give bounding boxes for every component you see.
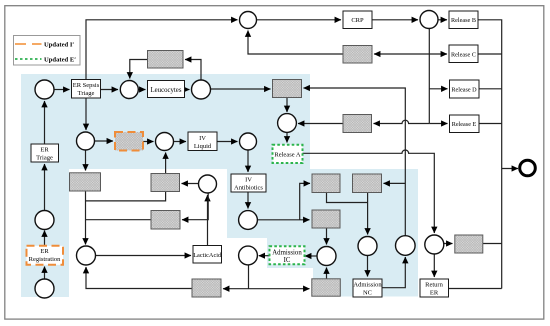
svg-text:Leucocytes: Leucocytes [151,87,182,94]
wire place p9 to CRP [257,19,342,21]
place p5 [192,80,211,99]
transition Leucocytes [148,81,185,98]
wire place p4 to Leucocytes [138,89,145,91]
gray transition G [353,174,382,193]
wire orange rect O1 to place p7 [143,141,154,143]
svg-text:Updated I′: Updated I′ [44,41,74,48]
legend green dotted sample [15,58,42,60]
wire place p11 to Release A [286,132,288,143]
transition LacticAcid [193,246,222,264]
svg-text:Release B: Release B [451,17,476,24]
place p18 [396,236,416,256]
wire trunk from place p10 down [428,29,430,124]
transition Admission IC green dashed [270,246,305,264]
gray transition B [343,115,372,133]
wire branch up to gray rect F [300,183,310,219]
place p16 [317,247,336,266]
wire place p7 to IV Liquid [174,141,187,143]
svg-text:Release E: Release E [452,121,477,128]
wire gray rect F elbow down [327,193,368,203]
wire place p14 to gray rect H [258,219,310,221]
gray transition F [312,174,340,193]
legend box [14,36,81,66]
wire place p6 down to gray rect C [85,150,87,171]
wire gray rect B to place p11 [298,123,343,125]
wire trunk rect C down to place p12 [85,191,87,245]
transition Release A green dashed [273,145,303,163]
gray transition A [273,80,302,98]
svg-text:Triage: Triage [36,155,53,162]
place p14 [239,211,258,230]
gray transition E [151,211,180,230]
svg-text:Liquid: Liquid [194,143,212,150]
wire place p2 to ER Triage [44,164,46,210]
wire place p12 to LacticAcid [96,255,192,257]
svg-text:CRP: CRP [351,17,364,24]
place p13 [199,175,217,193]
wire LacticAcid up to place p13 [207,195,209,246]
place p8 [240,133,257,150]
wire Admission IC to place p15 [259,255,270,257]
svg-text:Release C: Release C [451,52,476,59]
wire place p18 branch to gray rect G [384,182,406,184]
wire Release A to place p19 with hop [302,150,435,233]
place p11 [278,114,297,133]
transition Release C [449,45,478,63]
svg-text:NC: NC [363,290,372,297]
shaded region upper-left [21,74,310,297]
wire gray rect J to place p12 [86,267,192,289]
transition IV Liquid [188,132,217,151]
place p6 [77,132,95,150]
place p19 [425,235,444,254]
svg-text:ER: ER [430,290,439,297]
wire start place to ER Registration [44,267,46,279]
wire place p13 trunk down to gray rect E [182,193,208,220]
wire place p18 up to gray rect A [304,88,406,236]
wire CRP to place p10 [372,19,418,21]
transition Admission NC [353,279,382,297]
gray transition C [70,173,101,191]
svg-text:Antibiotics: Antibiotics [234,185,263,192]
wire Release D to right trunk [479,88,502,90]
place p17 [358,237,377,256]
svg-text:Return: Return [425,282,443,289]
wire gray rect D up to place p7 [165,153,167,174]
wire ER Sepsis Triage down to place p6 [85,98,87,130]
place p3 [35,80,54,99]
wire IV Liquid to place p8 [217,141,238,143]
wire place p19 to gray rect I [444,243,453,245]
wire place p16 to Admission IC [305,255,317,257]
transition Release D [450,80,480,98]
wire ER Registration to place p2 [44,231,46,246]
gray transition H [312,210,340,228]
wire skip-rect L to place p9 [248,31,343,55]
wire right trunk to end place [502,168,518,170]
wire place p5 to gray rect A [211,88,271,90]
transition IV Antibiotics [231,174,266,192]
svg-text:Release A: Release A [274,152,300,159]
wire gray rect I to right trunk [483,243,502,245]
svg-text:IC: IC [284,257,291,264]
wire place p19 down to Return ER [433,254,435,277]
wire Leucocytes to place p5 [185,89,190,91]
shaded region lower-right [227,169,418,297]
place end [520,160,536,176]
transition Release E [450,115,480,133]
place p7 [156,133,174,151]
wire place p6 to orange rect O1 [95,140,114,142]
gray transition I [455,235,483,253]
wire skip-rect M to place p4 [130,60,148,79]
transition Return ER [420,279,449,297]
wire place p10 to Release B [438,19,447,21]
place p12 [77,246,96,265]
svg-text:Admission: Admission [272,249,302,256]
svg-text:Release D: Release D [451,87,477,94]
wire trunk to Release C [429,53,447,55]
wire IV Antibiotics down to place p14 [247,192,249,209]
wire ER Triage to place p3 [44,101,46,144]
svg-text:ER Sepsis: ER Sepsis [73,82,100,89]
wire place p15 down branch [248,265,250,289]
svg-text:IV: IV [245,177,252,184]
gray transition J [192,279,221,297]
wire place p5 up into skip-rect M [185,60,201,81]
wire gray rect G down to place p17 [367,193,369,235]
transition ER Registration orange dashed [27,246,64,265]
wire branch to gray rect K [249,288,310,290]
svg-text:Admission: Admission [353,282,382,289]
wire trunk to Release E [429,123,447,125]
place p4 [120,81,138,99]
wire trunk to skip-rect L [374,53,429,55]
gray transition K [312,279,341,296]
transition CRP [343,11,372,29]
place p9 [240,12,257,29]
wire gray rect D bottom elbow to trunk [86,192,166,201]
place p15 [239,246,258,265]
wire trunk to gray rect B with hop [374,120,430,123]
wire Release B to right trunk [478,20,502,289]
wire gray rect K up to place p16 [326,268,328,280]
wire place p17 down to Admission NC [367,256,369,277]
svg-text:ER: ER [40,248,49,255]
wire branch to gray rect J [223,288,249,290]
legend orange dashed sample [15,43,42,45]
svg-text:ER: ER [40,147,49,154]
wire place p8 down to IV Antibiotics [247,150,249,172]
gray transition L (CRP redo) [343,46,372,64]
wire ER Sepsis Triage up to place p9 [86,20,238,80]
svg-text:Updated E′: Updated E′ [44,56,76,63]
wire gray rect H down to place p16 [326,228,328,245]
wire place p3 to ER Sepsis Triage [54,89,70,91]
wire gray rect E left to trunk [86,219,152,221]
gray transition D [151,174,180,192]
wire Release C to right trunk [478,53,502,55]
svg-text:LacticAcid: LacticAcid [193,252,222,259]
svg-text:Triage: Triage [78,90,95,97]
place p10 [420,11,438,29]
transition ER Triage [31,144,59,162]
transition Release B [449,11,478,29]
orange dashed hatched transition O1 [115,132,143,151]
place start [35,279,54,298]
wire Admission NC to place p18 [382,257,405,288]
transition ER Sepsis Triage [72,80,101,99]
place p2 [35,211,54,230]
gray transition M (Leucocytes redo) [148,51,184,69]
wire Release E to right trunk [479,123,502,125]
wire Return ER to right trunk [449,288,502,290]
wire place p13 to gray rect D [182,183,199,185]
wire ER Sepsis Triage to place p4 [101,89,119,91]
svg-text:Registration: Registration [29,256,62,263]
wire gray rect A down to place p11 [286,98,288,113]
svg-text:IV: IV [199,135,206,142]
wire trunk to Release D [429,88,447,90]
